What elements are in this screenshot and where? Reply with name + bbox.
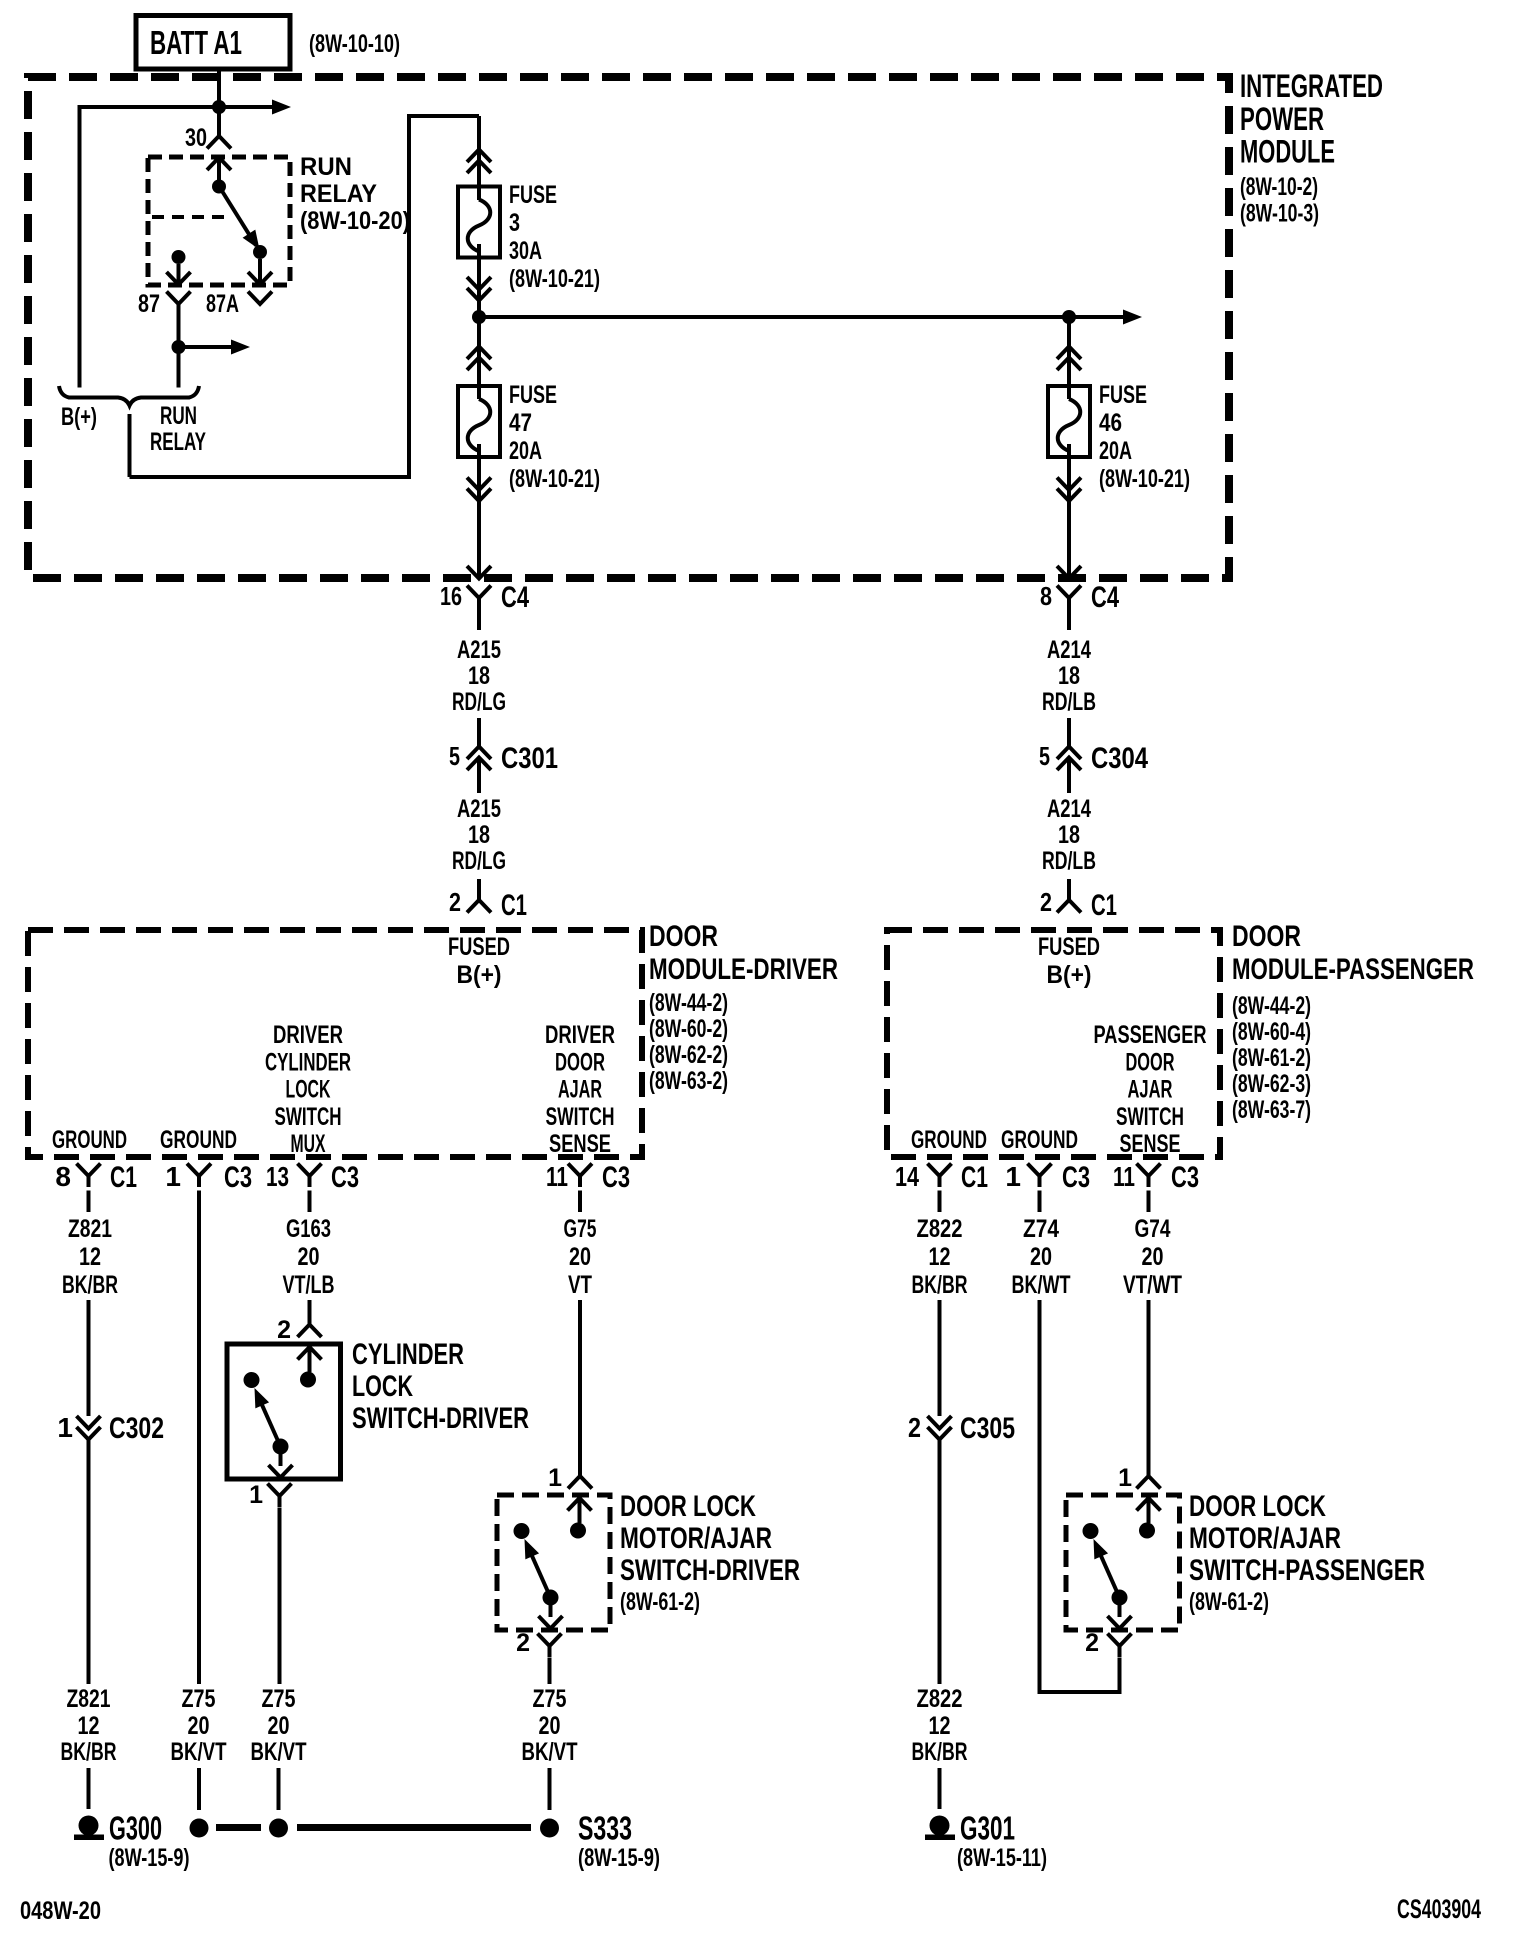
svg-text:C3: C3 — [331, 1161, 359, 1194]
svg-text:FUSE: FUSE — [509, 381, 557, 409]
svg-text:2: 2 — [1040, 887, 1052, 917]
svg-text:FUSED: FUSED — [1038, 933, 1100, 961]
svg-text:RELAY: RELAY — [150, 428, 206, 456]
svg-text:RELAY: RELAY — [300, 180, 377, 208]
svg-text:Z821: Z821 — [67, 1685, 111, 1713]
svg-text:8: 8 — [1040, 581, 1052, 611]
svg-text:C304: C304 — [1091, 742, 1148, 775]
svg-text:FUSED: FUSED — [448, 933, 510, 961]
svg-text:MODULE-DRIVER: MODULE-DRIVER — [649, 953, 838, 986]
svg-text:SENSE: SENSE — [549, 1130, 611, 1158]
svg-text:C302: C302 — [109, 1412, 164, 1445]
svg-text:2: 2 — [908, 1412, 921, 1443]
svg-text:DOOR: DOOR — [649, 920, 718, 953]
svg-text:AJAR: AJAR — [558, 1076, 602, 1104]
svg-text:12: 12 — [929, 1712, 951, 1740]
svg-text:VT: VT — [568, 1271, 592, 1299]
svg-text:Z822: Z822 — [917, 1685, 963, 1713]
svg-text:(8W-62-2): (8W-62-2) — [649, 1041, 728, 1069]
svg-text:20: 20 — [539, 1712, 561, 1740]
svg-text:1: 1 — [165, 1161, 181, 1192]
svg-text:5: 5 — [1039, 741, 1050, 771]
svg-text:(8W-63-2): (8W-63-2) — [649, 1067, 728, 1095]
svg-text:C4: C4 — [1091, 581, 1119, 614]
svg-text:30: 30 — [185, 124, 207, 152]
svg-text:G74: G74 — [1135, 1215, 1171, 1243]
svg-text:C3: C3 — [224, 1161, 252, 1194]
svg-text:C1: C1 — [1091, 889, 1117, 922]
svg-text:1: 1 — [1118, 1464, 1132, 1492]
svg-text:C1: C1 — [110, 1161, 137, 1194]
svg-text:(8W-44-2): (8W-44-2) — [649, 989, 728, 1017]
svg-text:Z75: Z75 — [533, 1685, 567, 1713]
svg-text:BK/BR: BK/BR — [912, 1738, 968, 1766]
svg-text:LOCK: LOCK — [352, 1370, 413, 1403]
svg-text:048W-20: 048W-20 — [20, 1897, 101, 1925]
svg-text:(8W-61-2): (8W-61-2) — [620, 1588, 700, 1616]
svg-text:LOCK: LOCK — [286, 1076, 331, 1104]
svg-text:2: 2 — [1085, 1629, 1099, 1657]
svg-text:BK/VT: BK/VT — [171, 1738, 227, 1766]
svg-text:SWITCH: SWITCH — [275, 1103, 342, 1131]
svg-text:C3: C3 — [1171, 1161, 1199, 1194]
svg-text:DOOR: DOOR — [555, 1048, 605, 1076]
svg-text:B(+): B(+) — [1047, 961, 1092, 989]
svg-text:20: 20 — [268, 1712, 290, 1740]
svg-text:GROUND: GROUND — [52, 1126, 127, 1154]
svg-text:RD/LB: RD/LB — [1042, 847, 1096, 875]
svg-text:3: 3 — [509, 209, 520, 237]
svg-text:(8W-62-3): (8W-62-3) — [1232, 1070, 1311, 1098]
svg-text:(8W-10-3): (8W-10-3) — [1240, 200, 1319, 228]
svg-text:AJAR: AJAR — [1128, 1076, 1173, 1104]
svg-text:SWITCH-DRIVER: SWITCH-DRIVER — [352, 1402, 529, 1435]
svg-text:20: 20 — [569, 1243, 591, 1271]
svg-text:C1: C1 — [501, 889, 527, 922]
svg-text:C301: C301 — [501, 742, 558, 775]
svg-text:DRIVER: DRIVER — [545, 1021, 615, 1049]
svg-text:RD/LB: RD/LB — [1042, 688, 1096, 716]
svg-text:RD/LG: RD/LG — [452, 688, 506, 716]
svg-text:DOOR: DOOR — [1126, 1048, 1175, 1076]
svg-text:18: 18 — [1058, 821, 1080, 849]
svg-text:CYLINDER: CYLINDER — [352, 1338, 464, 1371]
svg-text:(8W-10-20): (8W-10-20) — [300, 207, 410, 235]
svg-text:BK/BR: BK/BR — [912, 1271, 968, 1299]
svg-text:20: 20 — [1142, 1243, 1164, 1271]
svg-text:MOTOR/AJAR: MOTOR/AJAR — [620, 1522, 772, 1555]
svg-text:BATT A1: BATT A1 — [150, 24, 242, 61]
svg-text:MODULE: MODULE — [1240, 134, 1335, 170]
svg-text:S333: S333 — [578, 1810, 632, 1847]
svg-text:RUN: RUN — [160, 402, 197, 430]
svg-text:SWITCH-PASSENGER: SWITCH-PASSENGER — [1189, 1554, 1425, 1587]
svg-text:C1: C1 — [961, 1161, 988, 1194]
svg-text:BK/BR: BK/BR — [61, 1738, 117, 1766]
svg-text:C305: C305 — [960, 1412, 1015, 1445]
svg-text:BK/BR: BK/BR — [62, 1271, 118, 1299]
svg-text:(8W-10-21): (8W-10-21) — [509, 265, 600, 293]
svg-text:87A: 87A — [206, 290, 239, 318]
svg-text:2: 2 — [516, 1629, 530, 1657]
svg-text:A215: A215 — [457, 636, 501, 664]
svg-text:18: 18 — [468, 662, 490, 690]
svg-text:(8W-15-9): (8W-15-9) — [578, 1844, 660, 1872]
svg-text:BK/VT: BK/VT — [251, 1738, 307, 1766]
svg-text:C3: C3 — [1062, 1161, 1090, 1194]
svg-text:C4: C4 — [501, 581, 529, 614]
svg-text:PASSENGER: PASSENGER — [1094, 1021, 1207, 1049]
svg-text:FUSE: FUSE — [1099, 381, 1147, 409]
svg-text:2: 2 — [449, 887, 461, 917]
svg-text:A215: A215 — [457, 795, 501, 823]
svg-text:(8W-61-2): (8W-61-2) — [1232, 1044, 1311, 1072]
svg-text:(8W-60-2): (8W-60-2) — [649, 1015, 728, 1043]
svg-text:14: 14 — [895, 1161, 919, 1192]
svg-text:1: 1 — [1005, 1161, 1021, 1192]
svg-text:DOOR LOCK: DOOR LOCK — [1189, 1490, 1326, 1523]
svg-text:SWITCH: SWITCH — [1116, 1103, 1184, 1131]
svg-text:RD/LG: RD/LG — [452, 847, 506, 875]
svg-text:13: 13 — [266, 1161, 289, 1192]
svg-text:(8W-44-2): (8W-44-2) — [1232, 992, 1311, 1020]
svg-text:MODULE-PASSENGER: MODULE-PASSENGER — [1232, 953, 1474, 986]
svg-text:11: 11 — [1113, 1161, 1135, 1192]
svg-text:(8W-10-10): (8W-10-10) — [309, 30, 400, 58]
svg-text:12: 12 — [79, 1243, 101, 1271]
svg-text:CYLINDER: CYLINDER — [265, 1048, 351, 1076]
svg-text:Z822: Z822 — [917, 1215, 963, 1243]
svg-text:A214: A214 — [1047, 636, 1091, 664]
svg-text:INTEGRATED: INTEGRATED — [1240, 68, 1383, 104]
svg-text:(8W-60-4): (8W-60-4) — [1232, 1018, 1311, 1046]
svg-text:Z821: Z821 — [68, 1215, 112, 1243]
svg-text:POWER: POWER — [1240, 101, 1324, 137]
svg-text:20: 20 — [298, 1243, 320, 1271]
svg-text:Z75: Z75 — [262, 1685, 296, 1713]
svg-text:DOOR LOCK: DOOR LOCK — [620, 1490, 756, 1523]
svg-text:16: 16 — [440, 581, 462, 611]
svg-text:8: 8 — [55, 1161, 71, 1192]
svg-text:GROUND: GROUND — [911, 1126, 987, 1154]
svg-text:B(+): B(+) — [61, 403, 97, 431]
svg-text:20: 20 — [1030, 1243, 1052, 1271]
svg-text:46: 46 — [1099, 409, 1122, 437]
svg-text:(8W-15-9): (8W-15-9) — [109, 1844, 190, 1872]
svg-text:12: 12 — [929, 1243, 951, 1271]
svg-text:1: 1 — [57, 1412, 73, 1443]
svg-text:C3: C3 — [602, 1161, 630, 1194]
svg-text:SENSE: SENSE — [1120, 1130, 1181, 1158]
svg-text:MOTOR/AJAR: MOTOR/AJAR — [1189, 1522, 1341, 1555]
svg-text:18: 18 — [1058, 662, 1080, 690]
svg-text:Z75: Z75 — [182, 1685, 216, 1713]
svg-text:30A: 30A — [509, 237, 542, 265]
svg-text:BK/WT: BK/WT — [1012, 1271, 1071, 1299]
svg-text:VT/WT: VT/WT — [1123, 1271, 1182, 1299]
svg-text:20A: 20A — [1099, 437, 1132, 465]
svg-text:(8W-10-21): (8W-10-21) — [509, 465, 600, 493]
svg-text:5: 5 — [449, 741, 460, 771]
svg-text:(8W-10-21): (8W-10-21) — [1099, 465, 1190, 493]
svg-text:B(+): B(+) — [457, 961, 502, 989]
svg-text:DRIVER: DRIVER — [273, 1021, 343, 1049]
svg-text:(8W-63-7): (8W-63-7) — [1232, 1096, 1311, 1124]
svg-text:87: 87 — [138, 290, 160, 318]
svg-text:SWITCH-DRIVER: SWITCH-DRIVER — [620, 1554, 800, 1587]
svg-text:18: 18 — [468, 821, 490, 849]
svg-text:A214: A214 — [1047, 795, 1091, 823]
svg-text:47: 47 — [509, 409, 532, 437]
svg-text:2: 2 — [277, 1316, 291, 1344]
svg-text:(8W-10-2): (8W-10-2) — [1240, 173, 1318, 201]
svg-text:20A: 20A — [509, 437, 542, 465]
svg-text:G301: G301 — [960, 1810, 1015, 1847]
svg-text:GROUND: GROUND — [1001, 1126, 1078, 1154]
svg-text:1: 1 — [548, 1464, 562, 1492]
svg-text:MUX: MUX — [291, 1130, 326, 1158]
svg-text:(8W-61-2): (8W-61-2) — [1189, 1588, 1269, 1616]
svg-text:RUN: RUN — [300, 153, 352, 181]
svg-text:GROUND: GROUND — [160, 1126, 237, 1154]
svg-text:VT/LB: VT/LB — [283, 1271, 335, 1299]
svg-text:G163: G163 — [286, 1215, 331, 1243]
svg-text:12: 12 — [78, 1712, 100, 1740]
svg-text:G75: G75 — [564, 1215, 597, 1243]
svg-text:11: 11 — [546, 1161, 568, 1192]
svg-text:20: 20 — [188, 1712, 210, 1740]
svg-text:CS403904: CS403904 — [1397, 1894, 1481, 1924]
svg-text:1: 1 — [249, 1481, 263, 1509]
svg-text:BK/VT: BK/VT — [522, 1738, 578, 1766]
svg-text:(8W-15-11): (8W-15-11) — [957, 1844, 1047, 1872]
svg-text:DOOR: DOOR — [1232, 920, 1301, 953]
svg-text:G300: G300 — [109, 1810, 162, 1847]
svg-text:FUSE: FUSE — [509, 181, 557, 209]
svg-text:Z74: Z74 — [1023, 1215, 1059, 1243]
svg-text:SWITCH: SWITCH — [546, 1103, 615, 1131]
